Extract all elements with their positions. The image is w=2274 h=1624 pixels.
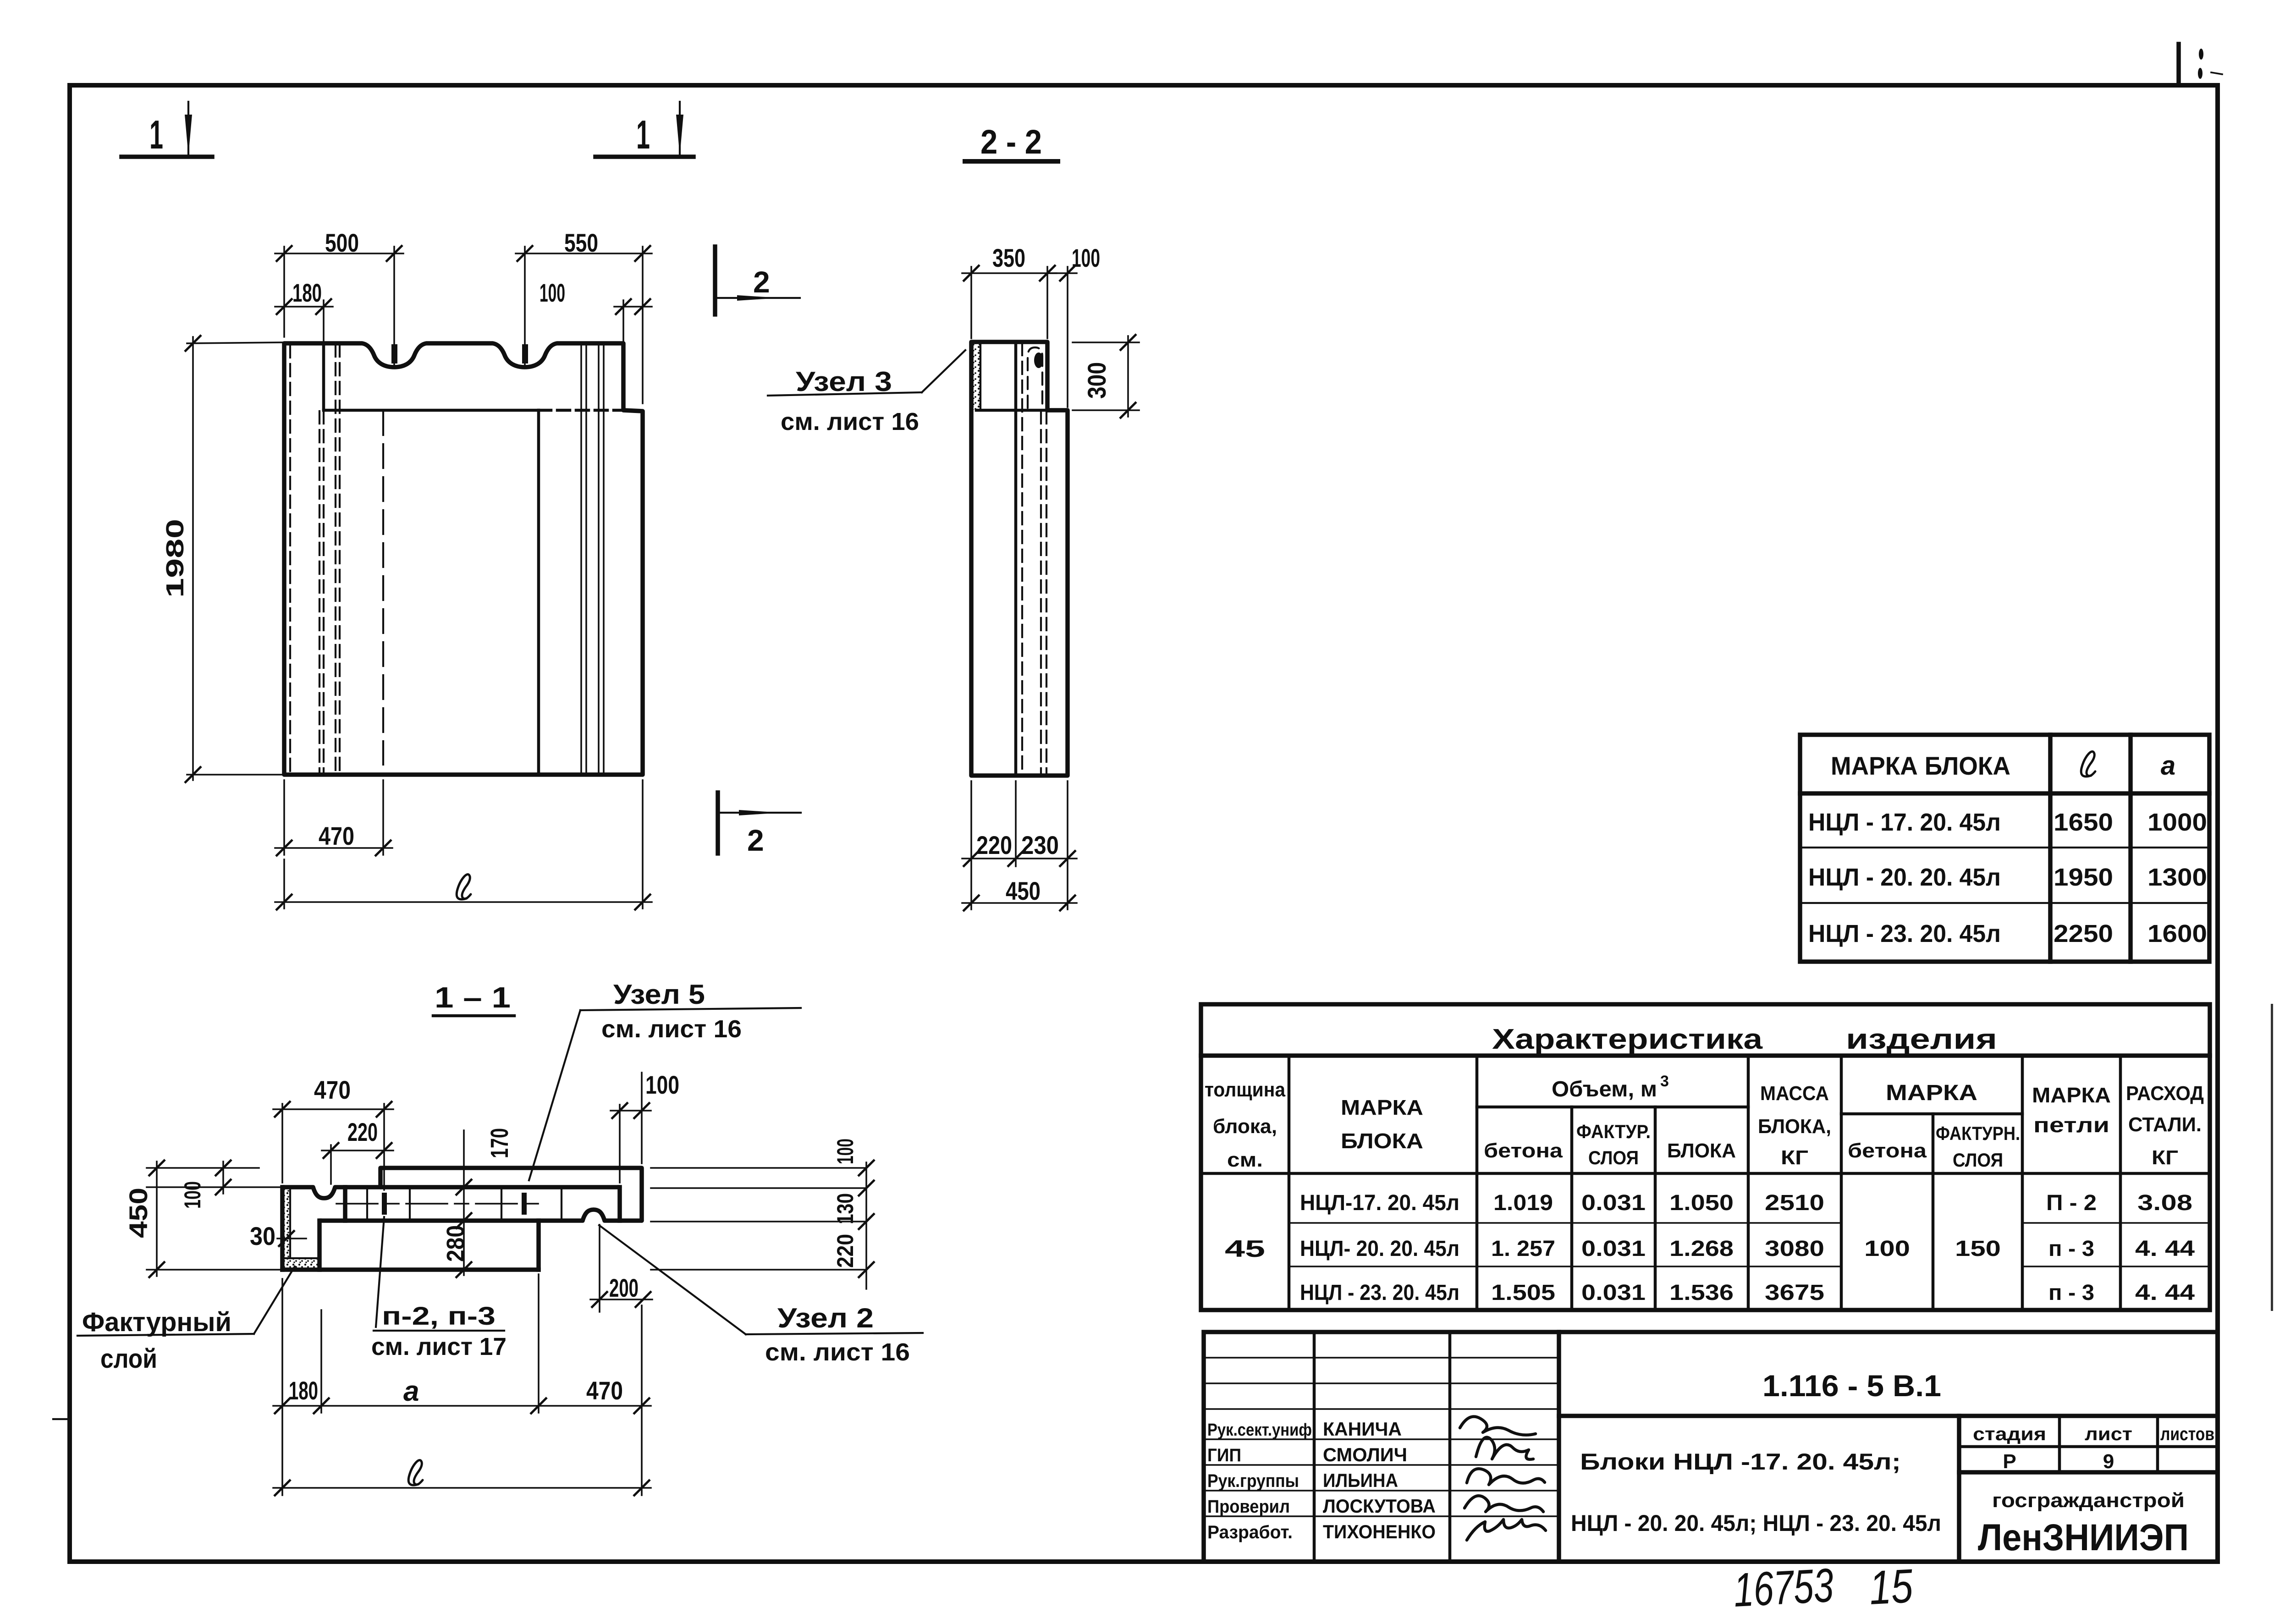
fold tick on left border — [53, 1418, 70, 1420]
elevation hidden edge near left edge (dashed) — [289, 345, 291, 775]
svg-text:МАРКА: МАРКА — [1886, 1081, 1977, 1105]
svg-text:п-2, п-3: п-2, п-3 — [382, 1301, 496, 1330]
svg-text:2 - 2: 2 - 2 — [980, 123, 1042, 161]
svg-text:100: 100 — [1864, 1237, 1910, 1261]
svg-text:БЛОКА,: БЛОКА, — [1758, 1115, 1831, 1138]
title block frame — [1204, 1332, 2218, 1562]
svg-text:1.050: 1.050 — [1669, 1191, 1734, 1215]
svg-text:РАСХОД: РАСХОД — [2126, 1082, 2204, 1105]
svg-text:см. лист 16: см. лист 16 — [765, 1338, 910, 1366]
label Uzel 2 with leader — [599, 1225, 923, 1366]
svg-text:15: 15 — [1868, 1559, 1915, 1615]
dimension 200 (section lower right) — [590, 1225, 652, 1312]
svg-text:слой: слой — [100, 1344, 157, 1374]
svg-text:Рук.группы: Рук.группы — [1207, 1471, 1299, 1491]
svg-text:45: 45 — [1225, 1236, 1265, 1262]
svg-text:СТАЛИ.: СТАЛИ. — [2128, 1113, 2202, 1136]
extension lines for 550 dim — [525, 247, 643, 403]
section 1-1 loop mark 2 — [522, 1193, 527, 1215]
elevation recess band bottom edge (hidden, dashed) — [539, 409, 623, 412]
svg-text:Характеристика: Характеристика — [1492, 1024, 1763, 1055]
block names cell — [1571, 1449, 1941, 1536]
svg-text:470: 470 — [319, 821, 354, 850]
stadiya / list / listov header — [1959, 1416, 2218, 1473]
label Fakturny sloy with leader — [77, 1266, 295, 1374]
section 1-1 right end inner edge — [617, 1187, 622, 1221]
elevation outline with top notches and right step — [284, 343, 643, 775]
svg-text:МАССА: МАССА — [1760, 1082, 1829, 1105]
svg-text:1000: 1000 — [2147, 809, 2207, 836]
svg-text:100: 100 — [1072, 243, 1100, 272]
svg-text:450: 450 — [1006, 876, 1041, 905]
section 1-1 centre axis line — [336, 1203, 541, 1205]
institute names — [1978, 1489, 2189, 1558]
svg-text:280: 280 — [442, 1225, 469, 1262]
svg-text:2250: 2250 — [2054, 920, 2113, 947]
svg-text:220: 220 — [976, 831, 1012, 859]
section marker 1 (left) — [121, 102, 212, 157]
svg-text:листов: листов — [2160, 1424, 2214, 1444]
dimension 170 / 280 (section, vertical) — [442, 1128, 513, 1278]
extension line bottom-left for 1980 dim — [187, 774, 284, 776]
column header: tolschina bloka — [1205, 1079, 1285, 1171]
svg-text:0.031: 0.031 — [1581, 1281, 1646, 1305]
svg-text:2510: 2510 — [1765, 1191, 1824, 1215]
svg-text:КАНИЧА: КАНИЧА — [1323, 1418, 1402, 1440]
svg-text:Узел 5: Узел 5 — [613, 979, 705, 1010]
document number 1.116-5 V.1 — [1762, 1369, 1941, 1403]
svg-text:1. 257: 1. 257 — [1491, 1237, 1555, 1261]
svg-text:180: 180 — [292, 278, 322, 307]
extension line top-left for 1980 dim — [187, 342, 284, 343]
svg-text:100: 100 — [832, 1139, 858, 1164]
table frame — [1201, 1004, 2210, 1310]
extension lines for 470 dim (bottom) — [284, 780, 383, 855]
svg-text:1: 1 — [149, 112, 163, 157]
section 1-1 main cut strip top edge with groove notch — [282, 1187, 620, 1198]
sub header: fakturn sloya — [1936, 1123, 2020, 1171]
dimension 220 / 230 — [962, 831, 1077, 867]
sub header: bloka — [1667, 1140, 1736, 1162]
dimension L (section bottom overall) — [273, 1460, 651, 1497]
view title 2-2 — [965, 123, 1058, 161]
dimension 470 (section bottom right) — [586, 1376, 650, 1414]
svg-text:НЦЛ - 20. 20. 45л: НЦЛ - 20. 20. 45л — [1808, 864, 2001, 891]
section 1-1 bottom edge — [282, 1267, 539, 1272]
svg-text:госгражданстрой: госгражданстрой — [1992, 1489, 2185, 1512]
svg-text:толщина: толщина — [1205, 1079, 1285, 1101]
column header: marka (spanning) — [1886, 1081, 1977, 1105]
svg-text:a: a — [2161, 751, 2175, 781]
svg-text:НЦЛ- 20. 20. 45л: НЦЛ- 20. 20. 45л — [1300, 1237, 1459, 1261]
side view band bottom step line — [976, 409, 1047, 412]
svg-text:стадия: стадия — [1973, 1424, 2046, 1444]
svg-text:Узел 2: Узел 2 — [777, 1303, 874, 1333]
elevation hidden edge pair at 180 (dashed) — [319, 411, 324, 775]
svg-text:100: 100 — [180, 1181, 205, 1209]
side view facture layer strip (stipple) — [972, 342, 980, 410]
signatures (handwritten squiggles) — [1460, 1417, 1546, 1541]
svg-text:220: 220 — [832, 1234, 858, 1268]
dimension 100 (section top right) — [611, 1070, 679, 1183]
svg-text:ФАКТУР.: ФАКТУР. — [1576, 1121, 1651, 1142]
elevation inner opening right edge — [537, 410, 540, 775]
elevation right rib groove lines (thin double pair A) — [581, 343, 586, 775]
signature table thin rows — [1204, 1358, 1559, 1516]
svg-text:НЦЛ-17. 20. 45л: НЦЛ-17. 20. 45л — [1300, 1191, 1459, 1215]
svg-text:3.08: 3.08 — [2137, 1191, 2192, 1215]
dimension L (bottom overall) — [275, 780, 652, 910]
svg-text:1650: 1650 — [2054, 809, 2113, 836]
section marker 2 (bottom) — [718, 793, 801, 857]
svg-text:220: 220 — [347, 1118, 378, 1146]
dimension 100 (top right) — [540, 278, 652, 341]
svg-text:п - 3: п - 3 — [2048, 1237, 2094, 1261]
table row 3 — [1808, 920, 2207, 947]
svg-text:a: a — [403, 1376, 419, 1407]
column header: massa bloka kg — [1758, 1082, 1831, 1169]
column header: marka petli — [2032, 1083, 2111, 1137]
svg-text:4. 44: 4. 44 — [2135, 1281, 2195, 1305]
svg-text:МАРКА БЛОКА: МАРКА БЛОКА — [1831, 751, 2010, 780]
svg-text:1: 1 — [636, 112, 650, 157]
table title — [1492, 1024, 1997, 1055]
section 1-1 lower part right edge — [536, 1221, 541, 1270]
svg-text:НЦЛ - 17. 20. 45л: НЦЛ - 17. 20. 45л — [1808, 809, 2001, 836]
svg-text:МАРКА: МАРКА — [1341, 1096, 1423, 1119]
svg-text:1.019: 1.019 — [1493, 1191, 1553, 1215]
svg-text:470: 470 — [314, 1075, 351, 1104]
side view outline — [971, 342, 1068, 776]
section 1-1 facture layer L-strip (stipple) — [282, 1189, 319, 1268]
svg-text:200: 200 — [609, 1273, 639, 1302]
svg-text:Р: Р — [2003, 1450, 2016, 1473]
svg-text:бетона: бетона — [1484, 1140, 1563, 1162]
svg-text:150: 150 — [1955, 1237, 2001, 1261]
sub header: betona 2 — [1848, 1140, 1927, 1162]
svg-text:БЛОКА: БЛОКА — [1667, 1140, 1736, 1162]
svg-text:п - 3: п - 3 — [2048, 1281, 2094, 1305]
sub header: betona — [1484, 1140, 1563, 1162]
column header: raskhod stali kg — [2126, 1082, 2204, 1169]
svg-text:СЛОЯ: СЛОЯ — [1953, 1149, 2003, 1171]
dimension 550 — [516, 228, 652, 262]
dimension 100 — [1047, 243, 1100, 281]
sub header: faktur sloya — [1576, 1121, 1651, 1168]
svg-text:3080: 3080 — [1765, 1237, 1824, 1261]
table header texts — [1831, 751, 2175, 781]
corner registration mark top-right — [2179, 44, 2222, 85]
svg-text:см. лист 17: см. лист 17 — [371, 1333, 507, 1360]
svg-text:1300: 1300 — [2147, 864, 2207, 891]
dimension a (section bottom) — [403, 1376, 547, 1414]
svg-text:100: 100 — [645, 1070, 679, 1099]
svg-text:блока,: блока, — [1213, 1115, 1277, 1138]
section marker 2 (top) — [715, 247, 800, 314]
lifting loop tick in notch 1 — [391, 344, 397, 363]
signature table role labels — [1207, 1420, 1312, 1542]
label Uzel 5 with leader — [529, 979, 801, 1180]
svg-text:ТИХОНЕНКО: ТИХОНЕНКО — [1323, 1521, 1436, 1542]
svg-text:Разработ.: Разработ. — [1207, 1522, 1293, 1542]
svg-text:470: 470 — [586, 1376, 623, 1405]
table row 1 — [1808, 809, 2207, 836]
dimension chain 100/130/220 (right, vertical) — [832, 1139, 875, 1289]
svg-text:550: 550 — [564, 228, 598, 257]
column header: marka bloka — [1341, 1096, 1423, 1153]
side view hidden line (dashed) — [1021, 343, 1023, 776]
elevation recess band bottom edge (solid part) — [324, 409, 539, 412]
dimension 470 (bottom) — [275, 821, 392, 856]
svg-text:2: 2 — [747, 823, 764, 857]
svg-text:1980: 1980 — [161, 519, 189, 598]
section marker 1 (right) — [595, 102, 694, 157]
svg-text:1 – 1: 1 – 1 — [435, 981, 511, 1014]
svg-text:0.031: 0.031 — [1581, 1191, 1646, 1215]
section 1-1 rib step edge — [343, 1187, 347, 1221]
svg-text:Проверил: Проверил — [1207, 1497, 1290, 1517]
extension lines for 350/100 dims — [971, 267, 1068, 407]
svg-text:180: 180 — [289, 1376, 318, 1405]
svg-text:петли: петли — [2033, 1113, 2109, 1137]
handwritten inventory numbers — [1732, 1559, 1915, 1617]
elevation hidden edge pair (dashed) — [336, 344, 340, 775]
signature table names — [1323, 1418, 1436, 1542]
svg-text:3: 3 — [1660, 1073, 1669, 1090]
dimension 500 — [275, 228, 403, 262]
svg-text:9: 9 — [2103, 1450, 2114, 1473]
extension lines for bottom dims of side view — [971, 781, 1068, 909]
svg-text:Рук.сект.униф: Рук.сект.униф — [1207, 1420, 1312, 1440]
svg-text:НЦЛ - 23. 20. 45л: НЦЛ - 23. 20. 45л — [1808, 920, 2001, 947]
label Uzel 3 with leader — [768, 350, 965, 435]
dimension 220 (section top) — [322, 1118, 393, 1184]
embedded lifting loop (hidden hook, dashed) — [1028, 347, 1043, 408]
svg-text:0.031: 0.031 — [1581, 1237, 1646, 1261]
left extension lines of section 1-1 — [147, 1168, 281, 1270]
dimension 450 (section, vertical) — [124, 1160, 165, 1278]
svg-text:Блоки НЦЛ -17. 20. 45л;: Блоки НЦЛ -17. 20. 45л; — [1580, 1449, 1901, 1475]
side view hidden pair (dashed) — [1041, 411, 1046, 776]
svg-text:см. лист 16: см. лист 16 — [601, 1015, 742, 1043]
svg-text:Фактурный: Фактурный — [82, 1307, 231, 1337]
svg-text:30: 30 — [250, 1222, 275, 1250]
dimension 1980 (vertical) — [161, 335, 201, 783]
label P-2 P-3 with leader — [371, 1217, 507, 1360]
svg-text:ЛОСКУТОВА: ЛОСКУТОВА — [1323, 1495, 1436, 1517]
svg-text:300: 300 — [1082, 362, 1111, 399]
svg-text:1.505: 1.505 — [1491, 1281, 1555, 1305]
svg-text:1950: 1950 — [2054, 864, 2113, 891]
svg-text:450: 450 — [124, 1188, 153, 1238]
table row 2 — [1808, 864, 2207, 891]
svg-text:см. лист 16: см. лист 16 — [781, 408, 919, 435]
dimension 450 — [962, 876, 1077, 911]
right extension lines of section 1-1 — [651, 1168, 866, 1270]
svg-text:ЛенЗНИИЭП: ЛенЗНИИЭП — [1978, 1517, 2189, 1558]
lifting loop tick in notch 2 — [522, 344, 528, 363]
section 1-1 step vertical at 180 — [317, 1221, 322, 1270]
svg-text:КГ: КГ — [1781, 1146, 1808, 1169]
svg-text:НЦЛ - 23. 20. 45л: НЦЛ - 23. 20. 45л — [1300, 1281, 1459, 1305]
svg-text:МАРКА: МАРКА — [2032, 1083, 2111, 1107]
data row 3 — [1300, 1281, 2195, 1305]
svg-text:лист: лист — [2085, 1424, 2132, 1444]
data: thickness 45 — [1225, 1236, 1265, 1262]
svg-text:3675: 3675 — [1765, 1281, 1824, 1305]
svg-text:2: 2 — [753, 265, 770, 299]
data row 2 — [1300, 1237, 2195, 1261]
svg-text:230: 230 — [1021, 831, 1059, 859]
elevation hidden axis line (long dash) — [382, 411, 384, 765]
svg-text:350: 350 — [992, 243, 1025, 272]
section 1-1 left outer edge — [280, 1187, 285, 1270]
scanner edge artifact right — [2271, 1004, 2273, 1311]
svg-text:СЛОЯ: СЛОЯ — [1588, 1147, 1639, 1168]
svg-text:ГИП: ГИП — [1207, 1445, 1241, 1465]
section 1-1 raised part top edge — [380, 1168, 642, 1221]
extension lines for 500 dim — [284, 247, 394, 365]
dimension 300 (vertical) — [1082, 334, 1136, 418]
svg-text:бетона: бетона — [1848, 1140, 1927, 1162]
svg-text:4. 44: 4. 44 — [2135, 1237, 2195, 1261]
section 1-1 loop mark 1 — [382, 1193, 387, 1215]
elevation right rib groove lines (thin double pair B) — [599, 343, 604, 775]
side view middle edge (220/230 joint) — [1014, 342, 1018, 776]
dimension 180 (section bottom) — [273, 1376, 651, 1414]
svg-text:130: 130 — [832, 1193, 858, 1224]
dimension 180 (top left) — [275, 278, 333, 341]
section 1-1 thin division lines in cut strip — [367, 1187, 562, 1221]
elevation recess left edge — [322, 343, 325, 410]
svg-text:16753: 16753 — [1732, 1559, 1835, 1617]
dimension 100 (section, vertical left) — [180, 1160, 231, 1209]
section 1-1 strip bottom edge with groove notch — [319, 1210, 642, 1221]
dimension 350 — [962, 243, 1057, 281]
svg-text:НЦЛ - 20. 20. 45л; НЦЛ - 23.: НЦЛ - 20. 20. 45л; НЦЛ - 23. 20. 45л — [1571, 1510, 1941, 1536]
svg-text:ФАКТУРН.: ФАКТУРН. — [1936, 1123, 2020, 1144]
svg-text:КГ: КГ — [2152, 1146, 2178, 1169]
svg-text:1.268: 1.268 — [1669, 1237, 1734, 1261]
svg-text:см.: см. — [1227, 1149, 1263, 1171]
bottom extension lines of section 1-1 — [282, 1274, 642, 1495]
svg-text:500: 500 — [325, 228, 359, 257]
svg-text:СМОЛИЧ: СМОЛИЧ — [1323, 1444, 1407, 1465]
column header: obyom m3 — [1552, 1073, 1669, 1101]
dimension 470 (section top) — [273, 1075, 393, 1190]
section title 1-1 — [433, 981, 514, 1016]
dimension 30 (facture layer) — [250, 1222, 306, 1250]
table frame — [1800, 735, 2209, 962]
svg-text:изделия: изделия — [1846, 1024, 1997, 1055]
svg-text:БЛОКА: БЛОКА — [1341, 1129, 1423, 1153]
svg-text:1.116 - 5 В.1: 1.116 - 5 В.1 — [1762, 1369, 1941, 1403]
svg-text:ИЛЬИНА: ИЛЬИНА — [1323, 1470, 1398, 1491]
svg-text:П - 2: П - 2 — [2046, 1191, 2097, 1215]
data row 1 — [1300, 1191, 2192, 1215]
svg-text:1600: 1600 — [2147, 920, 2207, 947]
extension lines for 300 dim — [1073, 342, 1139, 410]
svg-text:170: 170 — [486, 1128, 513, 1158]
svg-text:Объем, м: Объем, м — [1552, 1077, 1657, 1101]
svg-text:100: 100 — [540, 278, 565, 307]
svg-text:1.536: 1.536 — [1669, 1281, 1734, 1305]
